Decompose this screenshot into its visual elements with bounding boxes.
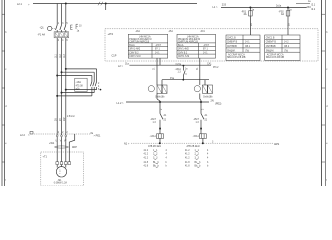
node junction fuse 1: [249, 7, 251, 9]
wire link B right drop: [204, 80, 206, 85]
node PE box symbol: [30, 132, 33, 135]
svg-text:14.1: 14.1: [245, 42, 250, 44]
fuse F01: [249, 8, 253, 17]
svg-text:/P3.2: /P3.2: [213, 67, 219, 69]
svg-text:2: 2: [58, 40, 60, 42]
wire return top: [66, 89, 97, 91]
node X2 mark K15: [200, 128, 202, 130]
wire link B left drop: [161, 80, 163, 85]
breaker Q1 contacts: [56, 25, 66, 32]
svg-text:b: b: [166, 162, 168, 164]
svg-text:SBLCCXS FB MB: SBLCCXS FB MB: [227, 57, 246, 59]
wire phase 1 vertical: [56, 4, 58, 26]
svg-text:41.8: 41.8: [185, 162, 190, 164]
contactor K13 label: [76, 81, 84, 90]
node CA1 label: [207, 63, 219, 69]
svg-text:ARS: ARS: [274, 143, 279, 146]
svg-text:3‿3: 3‿3: [153, 157, 158, 159]
svg-text:2a: 2a: [251, 23, 253, 26]
node N1 label: [124, 143, 130, 146]
svg-text:4: 4: [98, 86, 100, 88]
wire break ticks: [98, 2, 103, 6]
breaker Q1 bracket labels: [77, 26, 83, 33]
wire top supply bus: [33, 3, 197, 5]
terminal list K13 rows: [144, 150, 168, 168]
svg-text:-15A1: -15A1: [193, 135, 200, 138]
svg-text:SBLCCXS FB MB: SBLCCXS FB MB: [266, 57, 285, 59]
svg-text:-1?kT: -1?kT: [155, 45, 161, 47]
cable marker: [55, 146, 69, 148]
svg-text:f: f: [5, 180, 6, 182]
node junction on bus at phase L3: [65, 3, 67, 5]
aux block circle K13: [148, 86, 154, 92]
node motor wire labels: [56, 117, 67, 121]
svg-text:C1P: C1P: [112, 54, 117, 57]
contact K15 NO: [201, 114, 204, 134]
wire stub down from bus: [105, 4, 107, 11]
svg-text:/2.1: /2.1: [311, 4, 316, 7]
wire branch top: [66, 68, 97, 70]
node contact 13A1 label: [175, 68, 188, 76]
wire return mid: [62, 92, 95, 94]
plc table 1: [128, 34, 167, 58]
node motor rating label: [54, 180, 68, 185]
svg-text:-13A1: -13A1: [150, 135, 157, 138]
plc table 2: [177, 34, 216, 58]
svg-text:L2 >: L2 >: [118, 65, 123, 68]
svg-text:22: 22: [164, 120, 167, 122]
svg-text:+W1: +W1: [49, 142, 55, 145]
svg-text:1.3: 1.3: [196, 122, 200, 124]
node aux K15 label: [203, 96, 213, 98]
svg-text:(7b): (7b): [284, 50, 288, 52]
svg-text:BxxA: BxxA: [129, 44, 135, 47]
frame left row letters: [5, 32, 7, 182]
node contact K15 label: [193, 114, 208, 124]
node branch junction 3: [65, 68, 67, 70]
svg-text:41.2: 41.2: [144, 150, 149, 152]
svg-text:L1 >: L1 >: [213, 6, 218, 9]
svg-text:CMV B.2: CMV B.2: [178, 52, 188, 54]
node aux K13 label: [155, 96, 165, 98]
node junction fuse 2: [287, 7, 289, 9]
svg-text:4A: 4A: [244, 13, 247, 16]
svg-text:N1 >: N1 >: [124, 143, 130, 146]
node pin numbers 2 4 6: [58, 40, 69, 42]
svg-text:3: 3: [185, 74, 187, 76]
node branch junction 1: [56, 75, 58, 77]
node C1P label: [112, 54, 117, 57]
node tick below 2N right: [203, 108, 205, 110]
svg-text:BL‿b: BL‿b: [153, 162, 160, 164]
svg-text:b: b: [5, 32, 7, 34]
wire PE drop: [69, 134, 74, 162]
svg-text:-M1: -M1: [58, 180, 63, 182]
svg-text:e: e: [326, 143, 328, 145]
svg-text:4: 4: [207, 157, 209, 159]
node smudges above tables: [135, 30, 205, 33]
svg-text:41.8: 41.8: [144, 166, 149, 168]
svg-text:SM@M.: SM@M.: [227, 50, 236, 52]
svg-text:c: c: [326, 69, 328, 71]
svg-text:10: 10: [79, 26, 82, 28]
wire motor leads: [57, 165, 66, 168]
node wire name 2a: [276, 6, 282, 8]
svg-text:22: 22: [205, 120, 208, 122]
svg-text:41.2: 41.2: [185, 150, 190, 152]
svg-text:(PE2): (PE2): [215, 102, 222, 105]
svg-text:Gebh18b: Gebh18b: [155, 96, 165, 98]
svg-text:5: 5: [66, 23, 68, 25]
node coil K15 label: [193, 135, 200, 138]
svg-text:b: b: [326, 32, 328, 34]
node L1 wire label: [213, 3, 227, 9]
terminal list K13 header: [148, 145, 161, 148]
svg-text:41.2: 41.2: [144, 154, 149, 156]
svg-text:2N: 2N: [211, 100, 214, 103]
contact K13 NO: [160, 114, 163, 134]
node F02 label: [279, 10, 285, 16]
breaker Q1 label: [38, 27, 46, 37]
breaker Q1 overload box: [54, 32, 69, 38]
svg-text:31: 31: [197, 67, 199, 70]
coil K15: [199, 134, 206, 139]
svg-text:4DP: 4DP: [72, 146, 77, 149]
terminal list K15 rows: [185, 150, 209, 168]
svg-text:-15kT: -15kT: [193, 119, 199, 121]
wire phase 2 below breaker: [61, 38, 63, 135]
wire coil 1 feed: [129, 64, 160, 66]
node F01 wire ticks: [251, 9, 255, 26]
node terminal labels U V W: [56, 141, 68, 143]
svg-text:ACCRAF MCCA: ACCRAF MCCA: [267, 54, 284, 57]
svg-text:L2.1: L2.1: [17, 3, 22, 6]
node contact K13 label: [150, 114, 167, 124]
svg-text:4: 4: [207, 154, 209, 156]
svg-text:CMYBNB: CMYBNB: [227, 46, 237, 48]
svg-text:2‿2: 2‿2: [153, 154, 158, 156]
node coil K13 label: [150, 135, 157, 138]
node junction 2N right: [200, 101, 202, 103]
svg-text:CMBVF B: CMBVF B: [227, 42, 238, 44]
svg-text:+P3: +P3: [108, 32, 114, 36]
svg-text:CMC1.B: CMC1.B: [266, 37, 275, 39]
wire C23a: [160, 64, 211, 66]
svg-text:f: f: [326, 180, 327, 182]
svg-text:1.3: 1.3: [153, 122, 157, 124]
node contactor K13 pin marks: [98, 83, 100, 91]
motor M1 circle: [56, 167, 66, 177]
svg-text:41.2: 41.2: [144, 157, 149, 159]
svg-text:CMBVF B: CMBVF B: [266, 42, 277, 44]
svg-text:1a: 1a: [252, 9, 255, 11]
svg-text:A1: A1: [164, 114, 168, 117]
enclosure P3 dashed box: [105, 29, 318, 61]
svg-text:P1a: P1a: [170, 78, 175, 80]
svg-text:d: d: [5, 106, 7, 108]
svg-text:C23a: C23a: [176, 64, 182, 66]
svg-text:CMC1.B: CMC1.B: [227, 37, 236, 39]
svg-text:4: 4: [166, 150, 168, 152]
svg-text:233: 233: [222, 3, 227, 6]
svg-text:41.2: 41.2: [185, 157, 190, 159]
svg-text:1a: 1a: [77, 30, 80, 32]
svg-text:-15A: -15A: [168, 30, 173, 33]
wire table1 stub b: [159, 58, 161, 65]
svg-text:>: >: [28, 3, 30, 6]
svg-text:-13kT: -13kT: [150, 119, 156, 121]
frame right border: [322, 0, 326, 186]
svg-text:2: 2: [58, 132, 60, 134]
svg-text:2: 2: [98, 83, 100, 85]
svg-text:b: b: [207, 166, 209, 168]
node PE label left: [20, 134, 30, 137]
svg-text:d: d: [326, 106, 328, 108]
node wire size label: [67, 115, 75, 118]
aux block boxes K13: [157, 85, 167, 93]
fuse F02: [286, 8, 290, 17]
device table 4: [265, 35, 300, 61]
node PE end label: [91, 133, 101, 138]
svg-text:-F1 4A: -F1 4A: [38, 33, 46, 36]
svg-text:CMYBNB: CMYBNB: [266, 46, 276, 48]
aux block boxes K15: [203, 85, 213, 93]
svg-text:3RV1.4M2: 3RV1.4M2: [178, 49, 190, 51]
svg-text:W: W: [64, 141, 67, 143]
svg-text:c: c: [5, 69, 7, 71]
enclosure motor dashed box: [41, 152, 84, 186]
wire phase 2 vertical: [61, 4, 63, 26]
wire branch bottom: [57, 75, 92, 77]
svg-text:6: 6: [66, 40, 68, 42]
node X2 mark K13: [159, 128, 161, 130]
svg-text:2.5mm²: 2.5mm²: [67, 115, 75, 118]
wire phase 1 below breaker: [56, 38, 58, 135]
aux block circle K15: [194, 86, 200, 92]
svg-text:2: 2: [161, 108, 163, 110]
svg-text:Bb‿b: Bb‿b: [153, 166, 160, 168]
svg-text:CB.1: CB.1: [245, 46, 251, 48]
svg-text:CB.2: CB.2: [284, 46, 290, 48]
svg-text:14.2: 14.2: [284, 42, 289, 44]
svg-text:ATB 2B 1E1I: ATB 2B 1E1I: [148, 145, 161, 148]
svg-text:3‿3: 3‿3: [195, 157, 200, 159]
svg-text:CMY1 S.M: CMY1 S.M: [178, 56, 189, 58]
svg-text:CA1: CA1: [207, 63, 212, 66]
svg-text:/2.1: /2.1: [311, 8, 316, 11]
wire branch mid: [62, 71, 95, 73]
svg-text:4A: 4A: [281, 13, 284, 16]
node tick label right vertical: [197, 67, 199, 70]
svg-text:31: 31: [154, 67, 156, 70]
svg-text:41.8: 41.8: [144, 162, 149, 164]
node wire marks above separator: [58, 132, 69, 134]
breaker Q1 I> brackets: [71, 24, 79, 29]
svg-text:A1: A1: [205, 114, 209, 117]
svg-text:-13A: -13A: [135, 30, 140, 33]
svg-text:31a: 31a: [125, 64, 130, 66]
svg-text:1‿1: 1‿1: [153, 150, 158, 152]
svg-text:0.06kW 1.2A: 0.06kW 1.2A: [54, 182, 68, 185]
node motor symbol text: [59, 170, 61, 176]
wire right vertical mid: [199, 93, 201, 99]
svg-text:ACCRAF MCCA: ACCRAF MCCA: [228, 54, 245, 57]
node junction at x105: [105, 3, 107, 5]
node L1.2 cross ref: [117, 102, 125, 105]
frame left border: [2, 0, 5, 186]
svg-text:1‿1: 1‿1: [195, 150, 200, 152]
node junction link B: [182, 79, 184, 81]
wire F02 down: [287, 16, 289, 35]
node 233 end label: [307, 6, 316, 11]
wire PE dashed separator: [34, 133, 90, 135]
svg-text:SM@M.: SM@M.: [266, 50, 275, 52]
svg-text:2V: 2V: [60, 118, 62, 121]
node junction 2N left: [159, 101, 161, 103]
svg-text:4: 4: [62, 40, 64, 42]
wire coil K15 to N: [202, 138, 204, 143]
svg-text:ATB 2B 2E1I: ATB 2B 2E1I: [187, 145, 200, 148]
node wire labels mid: [56, 53, 67, 58]
svg-text:3: 3: [212, 142, 214, 144]
wire return bottom: [57, 95, 92, 97]
svg-text:+T1: +T1: [43, 156, 48, 159]
svg-text:2‿2: 2‿2: [195, 154, 200, 156]
contactor K13 poles: [90, 69, 96, 96]
wire phase 3 below breaker: [65, 38, 67, 135]
node P1a label: [170, 78, 175, 80]
svg-text:-13A: -13A: [76, 81, 82, 84]
wire left vertical upper: [156, 58, 158, 85]
svg-text:B? 1: B? 1: [155, 49, 160, 51]
node branch junction 2: [61, 71, 63, 73]
svg-text:2: 2: [66, 132, 68, 134]
frame right row letters: [326, 32, 328, 182]
node cross ref into coil 1: [118, 64, 130, 68]
node 2N label: [211, 100, 222, 106]
svg-text:3RV1.4M2: 3RV1.4M2: [129, 49, 141, 51]
svg-text:1a: 1a: [289, 9, 292, 11]
svg-text:1: 1: [58, 23, 60, 25]
svg-text:(7b): (7b): [245, 50, 249, 52]
svg-text:~: ~: [59, 173, 61, 176]
wire N dashed bus: [131, 142, 273, 144]
node tick below 2N left: [161, 108, 163, 110]
device table 3: [226, 35, 260, 61]
breaker Q1 linkage dashed: [52, 27, 56, 29]
node return junctions: [56, 89, 67, 97]
node tick label left vertical: [154, 67, 156, 70]
svg-text:Gebh18b: Gebh18b: [203, 96, 213, 98]
svg-text:b: b: [207, 162, 209, 164]
svg-text:4: 4: [166, 157, 168, 159]
node C23a label: [176, 64, 182, 66]
svg-text:L2.2: L2.2: [20, 134, 25, 137]
contactor K13 frame box: [75, 78, 87, 91]
svg-text:1a: 1a: [185, 69, 188, 71]
svg-text:B? 1: B? 1: [203, 49, 208, 51]
wire coil K13 to N: [159, 138, 161, 143]
breaker Q1 trip circle: [48, 26, 52, 30]
node junction N right: [202, 142, 204, 144]
wire left vertical mid: [156, 93, 158, 99]
node junction N left: [159, 142, 161, 144]
wire phases to motor: [57, 137, 66, 162]
wire right vertical upper: [199, 58, 201, 85]
svg-text:4: 4: [166, 154, 168, 156]
wire 233 bus: [221, 7, 307, 9]
svg-text:6: 6: [98, 89, 100, 91]
svg-text:2: 2: [203, 108, 205, 110]
svg-text:-Q1: -Q1: [40, 27, 45, 30]
svg-text:BxxA: BxxA: [178, 44, 184, 47]
node L1 source label: [17, 3, 30, 6]
node contactor K13 aux dot: [100, 89, 102, 91]
node F02 wire ticks: [289, 9, 293, 26]
node junction C23a: [183, 65, 185, 67]
node X1 terminal marks on phases: [56, 135, 66, 137]
wire link B: [162, 79, 209, 81]
wire top right PE segment: [296, 3, 310, 5]
svg-text:4: 4: [207, 150, 209, 152]
svg-text:CMV B.2: CMV B.2: [129, 52, 139, 54]
svg-text:41.8: 41.8: [185, 166, 190, 168]
svg-text:3: 3: [62, 23, 64, 25]
node PE cross reference top right: [308, 1, 316, 6]
node pin numbers 1 3 5: [58, 23, 69, 25]
svg-text:41.2: 41.2: [185, 154, 190, 156]
node cable label W1: [49, 142, 77, 149]
node P3 label: [108, 32, 114, 36]
svg-text:> PE1: > PE1: [94, 135, 101, 138]
wire 2N bus: [126, 101, 209, 103]
svg-text:1.3: 1.3: [178, 71, 182, 73]
node motor box label: [43, 156, 48, 159]
motor terminals: [56, 162, 71, 165]
svg-text:2: 2: [62, 132, 64, 134]
svg-text:L1.2 >: L1.2 >: [117, 102, 125, 105]
svg-text:b: b: [166, 166, 168, 168]
svg-text:-F01: -F01: [200, 31, 205, 33]
node N end label: [212, 142, 279, 146]
svg-text:CMY1 S.M: CMY1 S.M: [129, 56, 140, 58]
terminal list K15 header: [187, 145, 200, 148]
svg-text:Bb‿b: Bb‿b: [195, 166, 202, 168]
svg-text:14.1: 14.1: [203, 52, 208, 54]
svg-text:2a1a: 2a1a: [276, 6, 282, 8]
node F01 label: [241, 10, 247, 16]
svg-text:475.08: 475.08: [76, 86, 84, 88]
svg-text:BL‿b: BL‿b: [195, 162, 202, 164]
wire F01 down: [249, 16, 251, 35]
svg-text:-1?kT: -1?kT: [203, 45, 209, 47]
svg-text:e: e: [5, 143, 7, 145]
svg-text:14.1: 14.1: [155, 52, 160, 54]
contact 13A1 aux: [183, 66, 185, 80]
wire phase 3 vertical: [65, 4, 67, 26]
svg-text:2U: 2U: [56, 118, 58, 121]
svg-text:2a: 2a: [289, 23, 291, 26]
svg-text:>: >: [28, 134, 30, 137]
coil K13: [157, 134, 164, 139]
